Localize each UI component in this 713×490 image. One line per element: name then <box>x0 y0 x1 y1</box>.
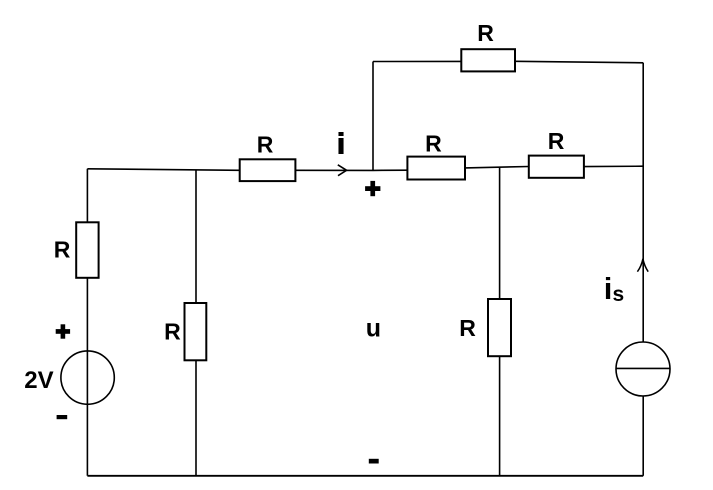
wire box3 to right vertical <box>584 165 643 167</box>
resistor R4 (middle row right) <box>529 128 584 178</box>
svg-text:i: i <box>337 128 345 160</box>
wire right vertical upper <box>642 63 644 342</box>
label - of u <box>369 459 379 464</box>
resistor R6 (middle-left shunt) <box>164 303 206 360</box>
current source is circle <box>616 342 670 396</box>
wire top horizontal right of R2 <box>515 61 643 63</box>
wire bottom horizontal <box>87 475 643 477</box>
svg-text:R: R <box>425 130 442 156</box>
resistor R5 (left shunt) <box>54 222 99 277</box>
svg-text:s: s <box>613 283 625 306</box>
wire box1 to node (current i) <box>295 169 373 171</box>
svg-text:R: R <box>548 128 565 154</box>
svg-text:R: R <box>459 315 476 341</box>
arrowhead current i <box>338 165 347 176</box>
svg-text:R: R <box>477 20 494 46</box>
wire box2 to box3 <box>465 167 529 168</box>
wire middle-right branch vertical <box>499 167 501 476</box>
resistor R1 (series, left middle) <box>240 132 296 182</box>
wire top horizontal left of R2 <box>373 60 461 62</box>
wire right vertical lower <box>642 396 644 476</box>
label is <box>604 271 624 306</box>
wire left vertical <box>86 169 88 476</box>
wire node to box2 <box>373 169 407 171</box>
svg-text:R: R <box>54 236 71 262</box>
svg-text:i: i <box>604 271 613 306</box>
svg-text:R: R <box>257 132 274 158</box>
resistor R2 (top feedback) <box>461 20 515 72</box>
arrowhead current source is <box>637 259 648 272</box>
svg-text:2V: 2V <box>24 367 53 394</box>
label + of voltage source <box>56 324 70 338</box>
voltage source 2V circle <box>61 351 114 404</box>
label + of u <box>365 181 380 196</box>
svg-text:R: R <box>164 319 181 345</box>
resistor R7 (middle-right shunt) <box>459 299 511 356</box>
wire middle-left branch vertical <box>195 170 197 476</box>
svg-text:u: u <box>366 315 381 343</box>
resistor R3 (middle row left) <box>407 130 465 179</box>
wire top-left horizontal <box>87 169 239 171</box>
label - of voltage source <box>57 415 68 419</box>
wire node up to top loop <box>372 62 374 171</box>
